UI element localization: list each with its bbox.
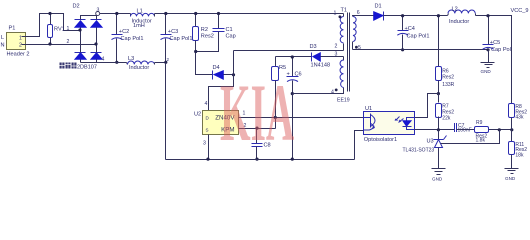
svg-text:6: 6	[357, 10, 360, 16]
wire DC- rail L3 to trunk	[155, 62, 166, 64]
svg-text:+C2: +C2	[119, 29, 129, 35]
svg-text:1N4148: 1N4148	[311, 62, 331, 68]
resistor R6	[436, 16, 455, 94]
wire U2 pin1 feedback to optocoupler	[239, 117, 364, 119]
capacitor C6	[287, 57, 302, 94]
node U2 pin3 ground	[206, 158, 209, 161]
label bridge type	[60, 63, 97, 71]
svg-text:3: 3	[203, 141, 206, 147]
wire DC+ rail to T1	[155, 13, 344, 15]
node C2 top	[115, 12, 118, 15]
node C3 top	[164, 12, 167, 15]
wire N from P1 pin2 to bridge	[27, 44, 97, 46]
wire U2 pin3 to ground rail	[208, 135, 210, 160]
svg-text:+C5: +C5	[490, 40, 500, 46]
wire T1 pin5 to return rail	[352, 42, 354, 50]
svg-text:Cap: Cap	[226, 33, 236, 39]
wire T1 pin6 to D1	[353, 16, 374, 17]
node R7 TL431 junction	[437, 128, 440, 131]
wire R2 bottom to D4	[196, 41, 213, 75]
node aux trunk ground	[291, 158, 294, 161]
svg-text:D3: D3	[310, 44, 317, 50]
svg-text:Cap Pol1: Cap Pol1	[170, 36, 193, 42]
capacitor C8	[252, 129, 271, 160]
inductor L1	[131, 9, 155, 30]
svg-text:VCC_9: VCC_9	[511, 8, 529, 14]
transformer T1	[331, 8, 361, 104]
svg-text:D4: D4	[213, 65, 220, 71]
resistor R11	[509, 130, 528, 169]
node TL431 ref junction	[498, 128, 501, 131]
varistor RV1	[48, 14, 65, 45]
svg-text:2: 2	[335, 44, 338, 50]
wire T1 pin3 lead	[343, 57, 345, 61]
svg-text:U1: U1	[365, 106, 372, 112]
resistor R5	[272, 57, 287, 129]
svg-text:1.8k: 1.8k	[476, 138, 486, 144]
wire primary ground trunk	[165, 63, 167, 160]
IC U2	[194, 101, 247, 147]
svg-text:R2: R2	[201, 27, 208, 33]
node bridge AC2	[94, 42, 97, 45]
svg-text:2: 2	[67, 39, 70, 45]
node L-RV1	[48, 12, 51, 15]
resistor R7	[436, 94, 455, 130]
node N-RV1	[48, 42, 51, 45]
wire T1 pin4	[293, 88, 344, 94]
svg-text:2DB107: 2DB107	[77, 65, 97, 71]
capacitor C1	[196, 14, 236, 52]
svg-text:Optoisolator1: Optoisolator1	[364, 137, 397, 143]
optocoupler U1	[364, 106, 415, 143]
svg-text:4: 4	[102, 57, 105, 63]
svg-text:+C4: +C4	[405, 26, 415, 32]
wire output rail	[384, 15, 448, 17]
capacitor C2	[112, 14, 144, 63]
diode D4	[213, 65, 234, 80]
wire DC+ rail	[100, 13, 131, 15]
wire TL431 anode	[438, 148, 440, 169]
node D4 switch junction	[232, 73, 235, 76]
svg-text:Inductor: Inductor	[129, 65, 149, 71]
node R2 top	[194, 12, 197, 15]
node R6 top	[437, 14, 440, 17]
svg-text:T1: T1	[341, 8, 348, 14]
svg-text:Cap Pol1: Cap Pol1	[407, 34, 430, 40]
node R6 bottom opto node	[437, 92, 440, 95]
capacitor C7	[455, 123, 472, 134]
node C5 top	[486, 14, 489, 17]
wire C7 to R9	[457, 129, 475, 131]
svg-text:C6: C6	[295, 71, 302, 77]
svg-text:Res2: Res2	[442, 75, 454, 81]
svg-text:P1: P1	[9, 26, 16, 32]
wire switch node to T1 pin2	[234, 50, 344, 52]
inductor L3	[127, 56, 155, 71]
svg-text:N: N	[1, 43, 5, 49]
svg-text:RV1: RV1	[54, 27, 65, 33]
wire output rail after L2	[476, 16, 512, 105]
node DC- trunk	[164, 61, 167, 64]
wire feedback node row	[415, 129, 455, 131]
svg-text:L1: L1	[137, 9, 143, 15]
svg-text:C1: C1	[226, 27, 233, 33]
node C1 top	[217, 12, 220, 15]
node divider junction	[510, 128, 513, 131]
svg-text:100nF: 100nF	[458, 127, 472, 133]
wire L from P1 pin1 to bridge	[27, 14, 81, 37]
svg-text:GND: GND	[505, 176, 516, 181]
svg-text:U3: U3	[427, 139, 434, 145]
node C6 top	[291, 55, 294, 58]
resistor R2	[193, 14, 214, 41]
capacitor C5	[483, 16, 511, 54]
wire DC- rail bridge to L3	[81, 62, 127, 64]
wire VCC aux node	[276, 56, 312, 58]
svg-text:22k: 22k	[442, 116, 451, 122]
svg-text:D1: D1	[375, 4, 382, 10]
wire opto LED anode jog	[415, 94, 439, 118]
ground under C5	[481, 50, 495, 75]
svg-text:2: 2	[19, 43, 22, 49]
svg-text:1mH: 1mH	[133, 23, 145, 29]
wire switch node vertical	[209, 51, 234, 111]
svg-text:L2: L2	[452, 6, 458, 12]
wire U2 pin2	[239, 128, 276, 130]
svg-text:Cap Pol1: Cap Pol1	[121, 36, 144, 42]
node bridge AC1	[78, 28, 81, 31]
resistor R9	[475, 120, 489, 144]
diode D3 1N4148	[310, 44, 344, 68]
diode D1	[374, 4, 384, 21]
svg-text:133R: 133R	[442, 82, 454, 88]
node C4 bottom	[401, 48, 404, 51]
svg-text:EE19: EE19	[337, 98, 350, 104]
svg-text:1: 1	[67, 26, 70, 32]
wire R9 to divider node	[489, 129, 512, 131]
node C2 bottom	[115, 61, 118, 64]
resistor R8	[509, 104, 528, 130]
node C4 top	[401, 14, 404, 17]
svg-text:GND: GND	[432, 177, 443, 182]
svg-text:Res2: Res2	[201, 33, 214, 39]
node pin1 R5 junction	[274, 116, 277, 119]
node C6 bottom aux return	[291, 92, 294, 95]
wire aux return trunk	[292, 94, 294, 160]
wire primary ground rail	[166, 159, 355, 161]
ground under R11	[505, 169, 519, 182]
svg-text:4: 4	[331, 90, 334, 96]
svg-text:1: 1	[334, 11, 337, 17]
svg-text:KIA: KIA	[220, 67, 294, 158]
svg-text:1: 1	[19, 36, 22, 42]
svg-text:43k: 43k	[515, 115, 524, 121]
svg-text:R9: R9	[476, 120, 483, 126]
bridge rectifier D2	[67, 4, 105, 63]
capacitor C3	[161, 14, 193, 63]
svg-text:L3: L3	[128, 56, 134, 62]
wire ground rail to opto emitter	[355, 131, 364, 160]
svg-text:Header 2: Header 2	[7, 52, 30, 58]
svg-text:4: 4	[205, 101, 208, 107]
wire secondary return rail	[353, 49, 489, 51]
ground under TL431	[432, 169, 446, 182]
connector P1 Header 2	[1, 26, 30, 58]
svg-text:3: 3	[335, 52, 338, 58]
node C8 top	[255, 127, 258, 130]
svg-text:18k: 18k	[515, 152, 524, 158]
svg-text:Cap Pol: Cap Pol	[491, 47, 511, 53]
svg-text:TL431-SOT23: TL431-SOT23	[403, 147, 435, 153]
inductor L2	[448, 6, 476, 25]
svg-text:Inductor: Inductor	[449, 19, 469, 25]
node snubber junction	[194, 50, 197, 53]
svg-text:U2: U2	[194, 112, 201, 118]
svg-text:GND: GND	[481, 69, 492, 74]
node 3 open terminal	[96, 12, 100, 16]
svg-text:S: S	[206, 128, 209, 133]
node C5 bottom	[486, 48, 489, 51]
svg-text:L: L	[1, 35, 4, 41]
wire TL431 ref	[441, 130, 500, 144]
node C8 bottom	[255, 158, 258, 161]
svg-text:+C3: +C3	[168, 29, 178, 35]
capacitor C4	[397, 16, 429, 50]
svg-text:D2: D2	[73, 4, 80, 10]
shunt regulator U3 TL431	[403, 130, 447, 154]
